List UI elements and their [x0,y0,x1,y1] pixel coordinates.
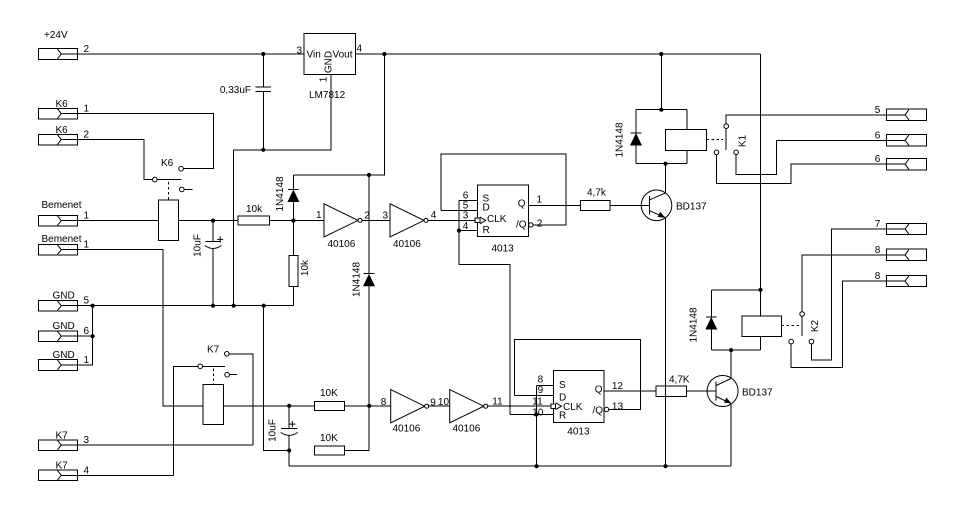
svg-text:Vout: Vout [332,50,352,61]
node +24V / 0.33uF junction [261,52,265,56]
svg-text:3: 3 [463,210,469,221]
transistor Q2 BD137 [707,376,773,407]
svg-text:1N4148: 1N4148 [275,176,286,211]
wire U2B out to FF1 CLK pin 3 [428,219,478,221]
svg-text:40106: 40106 [328,239,356,250]
wire regulator GND pin 1 [234,74,331,150]
svg-text:10: 10 [438,397,450,408]
node GND tie 6 [91,334,95,338]
svg-text:10k: 10k [300,259,311,276]
wire R5 to node [344,406,369,451]
svg-text:K1: K1 [738,134,749,147]
svg-text:40106: 40106 [393,239,421,250]
resistor R4 10K series [315,388,345,410]
switch K1 dashed actuator [706,139,723,141]
pin 4 stub R [459,221,478,232]
svg-text:1: 1 [316,210,322,221]
wire Q2 emitter to ground rail [730,403,732,466]
pin 10 stub R [510,408,553,419]
connector J15 pin 8 [875,245,927,261]
capacitor C1 0,33uF [220,54,271,150]
node K1 coil top [659,108,663,112]
wire U2C out to U2D in [429,405,450,407]
svg-text:/Q: /Q [592,406,603,417]
wire K1 throw to connector 6a [736,140,886,174]
svg-text:4,7K: 4,7K [669,374,690,385]
wire /Q feedback to D lower [515,340,641,410]
svg-text:2: 2 [84,44,90,55]
wire Q pin 12 to R6 [604,381,656,392]
diode D4 1N4148 flyback [689,290,717,350]
svg-text:8: 8 [381,397,387,408]
pin 9 stub D [515,385,554,396]
wire ground rail [78,305,294,307]
svg-text:0,33uF: 0,33uF [220,85,251,96]
wire S-R tie lower [536,386,538,415]
wire /Q feedback to D [441,154,566,225]
node ground rail regulator [232,304,236,308]
pin 11 label CLK [532,396,543,407]
svg-text:9: 9 [430,397,436,408]
svg-text:6: 6 [875,130,881,141]
switch S2 dashed actuator [212,369,214,385]
node upper clamp junction [291,219,295,223]
svg-text:1N4148: 1N4148 [615,122,626,157]
svg-text:4: 4 [431,210,437,221]
svg-text:6: 6 [84,326,90,337]
wire Q1 emitter to ground rail [665,218,667,467]
svg-text:1: 1 [319,76,330,82]
svg-text:1N4148: 1N4148 [352,262,363,297]
node ground rail Q1 emitter [663,464,667,468]
inverter U2B 40106 pins 3-4 [382,204,436,250]
svg-text:R: R [559,411,566,422]
wire K1 NO to connector 5 [726,115,886,124]
resistor R1 10k [238,204,269,225]
switch K2 contacts [789,312,821,344]
svg-text:5: 5 [875,105,881,116]
svg-text:40106: 40106 [453,424,481,435]
wire +12V to K1 coil [660,54,662,110]
wire C3 bottom to ground rail [288,451,290,467]
wire Q pin 1 to R3 [529,194,581,205]
connector J1 +24V pin 2 [38,30,89,59]
svg-text:BD137: BD137 [676,202,707,213]
connector J5 GND pin 5 [38,291,89,312]
svg-text:2: 2 [84,130,90,141]
svg-text:Bemenet: Bemenet [42,200,82,211]
inverter U2A 40106 pins 1-2 [316,204,370,250]
wire +12V drop to K2 [760,54,762,290]
wire relay K7 to R4 [238,405,315,407]
svg-text:GND: GND [53,350,75,361]
wire K2 common to connector 8b [791,281,886,368]
svg-text:11: 11 [532,396,543,407]
svg-text:8: 8 [875,245,881,256]
relay K2 coil [742,290,782,350]
svg-text:S: S [559,380,566,391]
node C1 bottom / GND wire [261,148,265,152]
node R pin 10 [534,412,538,416]
node K2 supply [758,288,762,292]
flip-flop U3A clock chevron [475,217,486,224]
svg-text:K7: K7 [207,345,220,356]
switch K1 contacts [714,124,748,155]
svg-text:10uF: 10uF [193,234,204,257]
svg-text:CLK: CLK [487,214,507,225]
svg-text:GND: GND [53,321,75,332]
node GND tie 5 [91,304,95,308]
svg-text:4: 4 [357,44,363,55]
svg-text:D: D [483,203,490,214]
svg-text:/Q: /Q [516,220,527,231]
svg-text:3: 3 [296,46,302,57]
svg-text:3: 3 [84,435,90,446]
svg-text:4: 4 [463,221,469,232]
svg-text:GND: GND [53,291,75,302]
switch S2 K7 contacts [198,345,237,378]
relay K1 coil bottom rail [636,163,687,165]
relay K1 coil [666,110,707,164]
regulator U1 LM7812 [296,33,362,101]
connector J2 K6 pin 1 [38,99,89,119]
connector J3 K6 pin 2 [38,125,89,145]
svg-text:5: 5 [84,296,90,307]
wire R6 to Q2 base [687,390,717,392]
bubble /Q pin 2 [529,218,543,229]
wire ground branch to lower network [264,306,290,451]
svg-text:1: 1 [84,240,90,251]
wire +12V rail from Vout [355,53,760,55]
wire K2 NO to connector 8a [802,255,886,312]
switch S1 K6 contacts [153,158,193,192]
svg-text:7: 7 [875,219,881,230]
svg-text:10K: 10K [320,433,338,444]
pin 3 label CLK [463,210,469,221]
resistor R3 4,7k [581,188,611,211]
svg-text:12: 12 [612,381,624,392]
connector J8 pin 5 [875,105,927,121]
svg-text:Q: Q [595,385,603,396]
resistor R2 10k pulldown [289,221,311,306]
relay K2 coil bottom rail [711,349,760,351]
relay K2 coil top rail [711,289,760,291]
svg-text:8: 8 [538,375,544,386]
node lower input / C3 [287,404,291,408]
node lower clamp junction [367,404,371,408]
wire K6 pin2 to switch common [78,140,153,180]
svg-text:K2: K2 [810,319,821,332]
svg-text:K7: K7 [56,431,69,442]
wire K6 pin1 to switch contact [78,114,214,169]
svg-text:4: 4 [84,465,90,476]
node +12V clamp branch [382,52,386,56]
svg-text:1: 1 [84,104,90,115]
switch S1 actuator dashed link [167,182,169,200]
wire K7 contact to connector K7-3 [229,354,253,445]
wire reset tie to FF2 R [459,231,510,415]
connector J14 pin 7 [875,219,927,235]
wire R3 to Q1 base [610,204,650,206]
wire connector K7-3 [78,444,253,446]
flip-flop U3B clock chevron [551,403,562,410]
wire U2D out to FF2 CLK pin 11 [488,405,554,407]
pin 5 stub D [441,201,478,212]
wire Q2 collector to K2 coil [730,350,732,378]
capacitor C2 10uF electrolytic [193,221,224,306]
wire K2 throw to connector 7 [811,229,886,360]
svg-text:2: 2 [537,218,543,229]
transistor Q1 BD137 [641,190,707,221]
svg-text:R: R [483,225,490,236]
node upper input / C2 [211,219,215,223]
svg-text:3: 3 [382,211,388,222]
svg-text:9: 9 [538,385,544,396]
connector J13 K7 pin 4 [38,461,89,481]
wire R tie to ground rail [536,415,538,467]
flip-flop U3A 4013 body [478,185,529,254]
bubble /Q pin 13 [604,401,623,412]
svg-text:+24V: +24V [44,30,68,41]
wire bottom ground rail [289,465,731,467]
node R pin 4 [457,229,461,233]
svg-text:1: 1 [537,194,543,205]
wire +24V to regulator Vin [78,53,304,55]
node C3 bottom [287,448,291,452]
svg-text:10: 10 [532,408,544,419]
relay coil K7 [203,385,224,425]
wire R1 to inverter input [270,220,325,222]
diode D2 1N4148 clamp [352,175,375,406]
svg-text:K6: K6 [161,158,174,169]
relay coil K6 [158,200,178,240]
svg-text:13: 13 [612,401,624,412]
connector J7 GND pin 1 [38,350,89,370]
wire R4 to inverter U2C [344,405,390,407]
pin 8 stub S [537,375,554,386]
connector J6 GND pin 6 [38,321,89,342]
svg-text:BD137: BD137 [742,388,773,399]
switch K2 dashed actuator [782,325,800,327]
svg-text:LM7812: LM7812 [309,90,346,101]
svg-text:1: 1 [84,355,90,366]
wire clamp rail to +12V [293,54,384,175]
connector J9 pin 6 [875,130,927,146]
svg-text:40106: 40106 [393,424,421,435]
wire Bemenet2 to relay K7 [78,250,238,406]
svg-text:GND: GND [324,51,335,73]
capacitor C3 10uF electrolytic [268,406,298,451]
inverter U2D 40106 pins 10-11 [450,390,503,435]
wire Bemenet1 into relay coil [78,220,239,222]
svg-text:8: 8 [875,271,881,282]
svg-text:4013: 4013 [492,244,515,255]
svg-text:1N4148: 1N4148 [689,307,700,342]
node ground rail lower branch [262,304,266,308]
node +12V K1 branch [659,52,663,56]
svg-text:1: 1 [84,211,90,222]
svg-text:10k: 10k [246,204,263,215]
wire Q1 collector [665,164,667,193]
svg-text:4013: 4013 [567,427,590,438]
connector J12 K7 pin 3 [38,431,89,451]
svg-text:Bemenet: Bemenet [42,234,82,245]
svg-text:10K: 10K [320,388,338,399]
wire K1 common to connector 6b [717,155,887,184]
diode D1 1N4148 clamp [275,175,299,221]
node ground rail FF reset [534,464,538,468]
svg-text:K6: K6 [56,99,69,110]
svg-text:4,7k: 4,7k [587,188,607,199]
node clamp rail / D2 branch [367,173,371,177]
node ground rail C2 [211,304,215,308]
connector J16 pin 8 [875,271,927,287]
connector J10 pin 6 [875,154,927,170]
svg-text:Vin: Vin [307,50,321,61]
connector J11 Bemenet pin 1 [38,234,89,255]
node K1 coil bottom [663,162,667,166]
relay K1 coil top rail [636,109,687,111]
node K2 coil bottom [729,348,733,352]
pin 6 stub S [459,191,478,202]
wire U2A out to U2B in [362,219,390,221]
flip-flop U3B 4013 body [553,371,604,438]
svg-text:K6: K6 [56,125,69,136]
wire S-R tie [458,200,460,230]
wire connector K7-4 [78,474,174,476]
wire GND drop to ground rail [233,150,235,306]
inverter U2C 40106 pins 8-9 [381,390,437,435]
connector J4 Bemenet pin 1 [38,200,89,226]
resistor R6 4,7K [656,374,690,396]
svg-text:6: 6 [875,154,881,165]
svg-text:10uF: 10uF [268,419,279,442]
wire K7 common to connector K7-4 [173,366,198,475]
diode D3 1N4148 flyback [615,110,642,164]
svg-text:Q: Q [518,199,526,210]
svg-text:K7: K7 [56,461,69,472]
resistor R5 10K pulldown [315,433,345,455]
wire GND tie verticals [78,306,93,365]
